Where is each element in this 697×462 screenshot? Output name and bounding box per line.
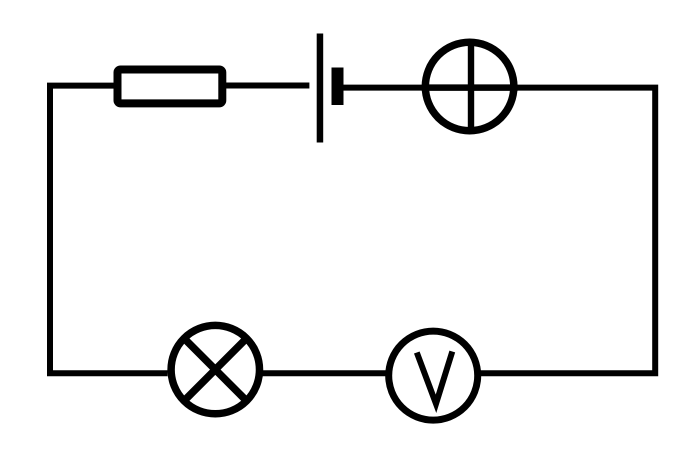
crossed-circle component (circle with plus) — [422, 41, 518, 132]
wire left loop: top-left segment, left rail, bottom-left segment — [50, 86, 168, 374]
wire between resistor and battery — [226, 83, 309, 89]
wire right loop: battery to top-right corner, right rail, bottom-right segment — [344, 88, 656, 374]
lamp (circle with X) — [171, 325, 259, 413]
battery cell: long plate (left) — [317, 34, 324, 143]
voltmeter V — [389, 331, 478, 420]
battery cell: short thick plate (right) — [332, 68, 344, 106]
resistor — [118, 70, 223, 104]
wire between lamp and voltmeter — [260, 370, 388, 376]
